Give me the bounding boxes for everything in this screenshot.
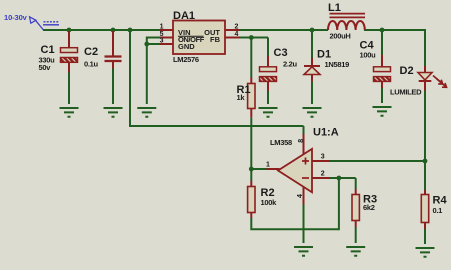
wire D1 to ground [311, 81, 313, 104]
node rail-C4 [380, 28, 385, 33]
capacitor C3 [260, 47, 298, 91]
svg-text:L1: L1 [328, 2, 341, 14]
pin 8 V+ stub [303, 134, 305, 154]
svg-text:LUMILED: LUMILED [390, 88, 422, 97]
capacitor C1 [39, 31, 78, 73]
wire top rail right (OUT to corner) [240, 29, 328, 31]
ground pins 3-5 [137, 108, 156, 117]
wire junction to ground [146, 44, 148, 104]
pin 4 FB stub [225, 37, 240, 39]
wire R1 to output node [250, 118, 252, 169]
resistor R1 [237, 78, 256, 118]
pin 1 output stub [267, 168, 280, 170]
wire pin5 to junction [147, 38, 160, 45]
svg-text:FB: FB [210, 35, 221, 44]
wire FB to C3 [267, 38, 269, 57]
svg-text:8: 8 [298, 139, 305, 143]
wire R4 to ground [424, 229, 426, 244]
pin 3 + stub [312, 160, 330, 162]
wire R2 bottom to feedback node [251, 178, 339, 229]
svg-text:1k: 1k [237, 93, 246, 102]
ground C4 [373, 107, 392, 116]
wire FB down to R1 [250, 38, 252, 78]
svg-text:R4: R4 [433, 195, 448, 207]
wire C1 to ground [68, 73, 70, 105]
pin 2 - stub [312, 177, 330, 179]
node rail-C2 [111, 28, 116, 33]
wire after inductor [364, 29, 425, 31]
inductor L1 [328, 2, 365, 41]
node FB-R1 [249, 35, 254, 40]
pin 2 OUT stub [225, 29, 240, 31]
capacitor C2 [84, 31, 122, 69]
svg-text:3: 3 [160, 38, 164, 45]
node rail-D1 [310, 28, 315, 33]
capacitor C4 [360, 31, 391, 88]
svg-text:2: 2 [321, 171, 325, 178]
wire D2 to sense node [424, 91, 426, 191]
ground C2 [104, 108, 123, 117]
wire supply horizontal to op-amp V+ [129, 125, 304, 127]
diode D1 1N5819 [304, 49, 349, 82]
wire supply vertical [129, 29, 131, 126]
svg-text:D2: D2 [400, 65, 414, 77]
wire down to LED [424, 29, 426, 66]
wire supply down to pin 8 [303, 126, 305, 134]
resistor R4 [421, 190, 447, 229]
svg-text:C2: C2 [84, 46, 98, 58]
svg-text:1N5819: 1N5819 [325, 60, 350, 69]
svg-text:10-30v: 10-30v [4, 13, 28, 22]
node D2-R4-opamp [423, 159, 428, 164]
op-amp U1:A [270, 127, 339, 193]
wire pin4 to ground [303, 205, 305, 244]
wire D1 top [311, 30, 313, 58]
input terminal 10-30v [4, 13, 59, 30]
led D2 LUMILED [390, 65, 447, 97]
wire C4 to ground [381, 88, 383, 103]
node rail-supply [128, 28, 133, 33]
resistor R3 [352, 189, 377, 227]
svg-text:U1:A: U1:A [313, 127, 339, 139]
wire top rail left [43, 29, 160, 31]
svg-text:0.1: 0.1 [433, 206, 443, 215]
wire to R3 top [355, 178, 357, 189]
svg-text:100k: 100k [261, 198, 278, 207]
node output [249, 167, 254, 172]
ground D1 [303, 108, 322, 117]
svg-text:200uH: 200uH [330, 32, 351, 41]
wire FB net horizontal [240, 37, 268, 39]
ground R4 [416, 248, 435, 257]
ground C1 [60, 108, 79, 117]
svg-text:D1: D1 [317, 49, 331, 61]
svg-text:3: 3 [321, 153, 325, 160]
wire pin3 to sense node [330, 160, 425, 162]
svg-text:0.1u: 0.1u [84, 60, 99, 69]
svg-text:C1: C1 [41, 44, 55, 56]
svg-text:4: 4 [235, 31, 239, 38]
svg-text:100u: 100u [360, 51, 377, 60]
svg-text:50v: 50v [39, 63, 52, 72]
pin 4 V- stub [303, 187, 305, 205]
regulator DA1 LM2576 [173, 10, 225, 64]
node rail-C1 [67, 28, 72, 33]
svg-text:LM2576: LM2576 [173, 55, 199, 64]
wire pin3 to junction [147, 43, 160, 45]
ground pin4 [294, 247, 313, 256]
pin 1 VIN stub [160, 29, 173, 31]
wire output node to pin 1 [251, 168, 266, 170]
resistor R2 [248, 169, 278, 218]
svg-text:2.2u: 2.2u [283, 60, 298, 69]
pin 3 GND stub [160, 43, 173, 45]
svg-text:4: 4 [297, 194, 304, 198]
pin 5 ON/OFF stub [160, 37, 173, 39]
ground R3 [346, 247, 365, 256]
svg-text:C3: C3 [274, 47, 288, 59]
svg-text:1: 1 [160, 24, 164, 31]
wire pin2 to R3 [330, 177, 356, 179]
wire C2 to ground [112, 69, 114, 105]
wire C3 to ground [267, 91, 269, 104]
node feedback [337, 176, 342, 181]
svg-text:1: 1 [266, 162, 270, 169]
svg-text:LM358: LM358 [270, 138, 292, 147]
svg-text:GND: GND [178, 42, 195, 51]
ground C3 [259, 108, 278, 117]
svg-text:6k2: 6k2 [363, 203, 375, 212]
svg-text:2: 2 [235, 24, 239, 31]
node pin3-pin5 [144, 42, 149, 47]
wire R3 to ground [355, 227, 357, 243]
